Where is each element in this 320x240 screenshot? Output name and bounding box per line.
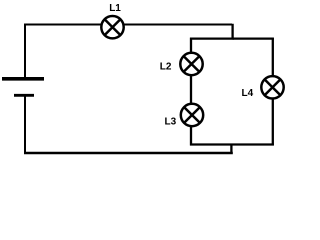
svg-text:L3: L3 [165,116,177,127]
svg-text:L2: L2 [160,62,172,73]
svg-text:L1: L1 [109,3,121,14]
svg-text:L4: L4 [242,88,254,99]
